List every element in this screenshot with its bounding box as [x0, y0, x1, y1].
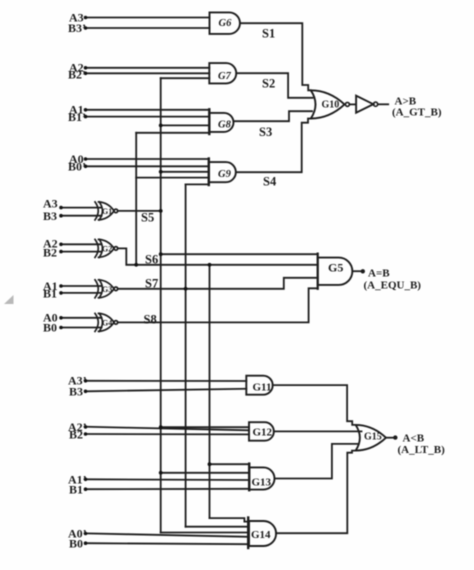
svg-text:S8: S8 — [144, 313, 157, 327]
node S6 lower junction — [208, 263, 212, 267]
svg-text:B2: B2 — [69, 428, 83, 442]
svg-text:G8: G8 — [218, 120, 232, 131]
xnor-gate G2 — [95, 239, 118, 257]
wire A0' input to G14 — [87, 533, 248, 536]
wire B0 input to G14 — [87, 543, 248, 544]
node A0 terminal — [84, 157, 88, 161]
wire A_LT_B output — [386, 437, 394, 439]
svg-text:B1’: B1’ — [68, 110, 86, 124]
node A3 terminal — [84, 16, 88, 20]
and-gate G13 — [249, 467, 274, 489]
wire B2 input to G12 — [87, 433, 249, 435]
and-gate G5 input bar — [317, 254, 319, 289]
wire S7 branch to G9 — [186, 183, 209, 185]
node S5-G5 junction — [159, 252, 163, 256]
svg-text:G3: G3 — [102, 285, 112, 294]
wire A3' input to G11 — [87, 380, 246, 382]
node S5-G12 junction — [159, 425, 163, 429]
node B0 lower terminal — [84, 541, 88, 545]
and-gate G9 input bar — [208, 159, 210, 186]
wire G6 output S1 to G10 — [240, 23, 311, 90]
wire S6 branch to G8 — [136, 132, 209, 134]
wire junction dots — [134, 124, 211, 475]
svg-text:G7: G7 — [218, 71, 232, 82]
wire S5 branch to G13 — [161, 472, 250, 474]
node S7 junction — [184, 287, 188, 291]
wire B2 input to G2 — [62, 251, 102, 253]
and-gate G6 — [210, 12, 240, 34]
wire G5 output A_EQU_B — [352, 270, 361, 272]
wire S5 branch to G5 — [161, 253, 318, 255]
wire B0 input to G4 — [62, 327, 102, 329]
wire A0 input to G4 — [62, 317, 102, 319]
wire A2' input to G12 — [87, 427, 249, 431]
node S5-G1 junction — [159, 209, 163, 213]
svg-text:S7: S7 — [145, 277, 158, 291]
svg-text:B1: B1 — [43, 287, 57, 301]
wire A1' input to G13 — [87, 478, 249, 481]
watermark triangle — [4, 295, 14, 304]
svg-text:B3: B3 — [69, 385, 83, 399]
svg-text:B1: B1 — [69, 483, 83, 497]
wire S7 branch to G14 — [186, 526, 249, 528]
wire S5 branch to G8 — [161, 124, 210, 126]
vertical net S6 upper — [135, 133, 137, 265]
input terminal dots — [59, 16, 87, 545]
svg-text:G15: G15 — [364, 431, 382, 442]
wire G1 output S5 — [118, 210, 161, 212]
node G5 output dot — [361, 269, 365, 273]
node S5-G9 junction — [159, 170, 163, 174]
and-gate G13 input bar — [248, 464, 250, 491]
wire B1 input to G13 — [87, 488, 249, 490]
and-gate G7 — [209, 63, 236, 83]
svg-text:(A_LT_B): (A_LT_B) — [398, 444, 446, 456]
wire B1' input to G8 — [87, 116, 209, 118]
wire A2 input to G2 — [62, 243, 102, 245]
wire S5 branch to G14 — [161, 532, 249, 534]
vertical net S7 — [185, 184, 187, 526]
node B2 xnor terminal — [59, 250, 63, 254]
svg-text:S1: S1 — [262, 27, 275, 41]
wire G4 output S8 run to G5 — [118, 288, 318, 322]
svg-text:G11: G11 — [253, 382, 272, 394]
wire A3 input to G1 — [62, 207, 102, 209]
svg-text:S6: S6 — [145, 253, 158, 267]
wire G14 output to G15 — [276, 451, 356, 534]
wire S5 branch to G9 — [161, 171, 209, 173]
node S5-G8 junction — [159, 124, 163, 128]
node A2 terminal — [84, 66, 88, 70]
svg-text:B3: B3 — [43, 209, 57, 223]
wire A1 input to G8 — [87, 109, 209, 111]
node A2 xnor terminal — [59, 243, 63, 247]
wire S5 branch to G7 — [161, 77, 210, 79]
wire B3' input to G6 — [87, 27, 210, 29]
svg-text:A<B: A<B — [403, 433, 425, 445]
svg-text:G1: G1 — [102, 207, 112, 216]
node B1 xnor terminal — [59, 291, 63, 295]
and-gate G14 — [249, 521, 276, 546]
svg-text:G6: G6 — [219, 18, 233, 29]
and-gate G8 — [209, 113, 233, 132]
wire A_GT_B output — [378, 103, 388, 105]
wire S6 branch to G9 — [136, 177, 209, 179]
node S6-G13 junction — [208, 462, 212, 466]
wire A3 input to G6 — [87, 17, 210, 19]
wire S6 branch to G14 — [210, 518, 249, 522]
svg-text:S3: S3 — [259, 125, 272, 139]
svg-text:G4: G4 — [102, 319, 112, 328]
wire G13 output to G15 — [275, 444, 359, 479]
wire B2' input to G7 — [87, 72, 209, 74]
svg-text:A=B: A=B — [368, 268, 390, 280]
svg-text:S4: S4 — [263, 175, 277, 189]
inverter output bubble — [374, 102, 378, 106]
and-gate G12 — [249, 422, 274, 441]
node B2 lower terminal — [84, 432, 88, 436]
svg-text:G13: G13 — [252, 477, 272, 489]
svg-text:B2: B2 — [43, 246, 57, 260]
svg-text:B2’: B2’ — [68, 68, 86, 82]
wire B0' input to G9 — [87, 165, 209, 167]
node B0 xnor terminal — [59, 326, 63, 330]
node B3 lower terminal — [84, 390, 88, 394]
and-gate G9 — [209, 162, 236, 182]
inverter after G10 — [356, 96, 373, 113]
node S5-G13 junction — [159, 471, 163, 475]
wire G8 output S3 to G10 — [234, 111, 313, 121]
and-gate G5 — [318, 258, 353, 285]
svg-text:B3’: B3’ — [68, 21, 86, 35]
svg-text:B0: B0 — [43, 321, 57, 335]
node G15 output dot — [393, 435, 397, 439]
node A1' terminal — [84, 478, 88, 482]
wire S6 branch to G13 — [210, 463, 250, 465]
svg-text:S5: S5 — [141, 211, 154, 225]
node A3' terminal — [84, 379, 88, 383]
wire G7 output S2 to G10 — [236, 73, 312, 98]
wire A1 input to G3 — [62, 285, 102, 287]
and-gate G11 — [246, 376, 272, 395]
node B3' terminal — [84, 26, 88, 30]
node A0' terminal — [84, 532, 88, 536]
wire A2 input to G7 — [87, 67, 209, 69]
and-gate G8 input bar — [208, 109, 210, 134]
svg-text:G12: G12 — [253, 427, 273, 439]
svg-text:(A_GT_B): (A_GT_B) — [392, 106, 442, 118]
node B3 xnor terminal — [59, 214, 63, 218]
svg-text:G14: G14 — [251, 529, 271, 541]
svg-text:G5: G5 — [328, 261, 343, 275]
node A2' terminal — [84, 425, 88, 429]
wire B1 input to G3 — [62, 292, 102, 294]
or-gate G15 — [356, 425, 386, 451]
svg-text:G9: G9 — [218, 169, 232, 180]
vertical net S5 — [160, 78, 162, 532]
wire G12 output to G15 — [274, 430, 362, 432]
node B2' terminal — [84, 72, 88, 76]
svg-text:(A_EQU_B): (A_EQU_B) — [364, 279, 422, 291]
wire G9 output S4 to G10 — [236, 119, 311, 173]
vertical net S6 lower — [209, 265, 211, 518]
node A0 xnor terminal — [59, 316, 63, 320]
svg-text:S2: S2 — [262, 77, 275, 91]
svg-text:G10: G10 — [322, 99, 340, 110]
node B1' terminal — [84, 115, 88, 119]
wire S5 branch to G12 — [161, 426, 249, 428]
node A3 xnor terminal — [59, 206, 63, 210]
nor-gate G10 — [311, 90, 345, 118]
wire A0 input to G9 — [87, 158, 209, 160]
and-gate G14 input bar — [247, 518, 249, 549]
svg-text:G2: G2 — [102, 245, 112, 254]
xnor-gate G3 — [95, 280, 118, 298]
wire B3 input to G1 — [62, 215, 102, 217]
xnor-gate G1 — [95, 202, 118, 220]
nor-gate G10 output bubble — [345, 102, 349, 106]
node A1 xnor terminal — [59, 284, 63, 288]
svg-text:B0: B0 — [69, 537, 83, 551]
wire G11 output to G15 — [273, 385, 356, 425]
node S6 upper junction — [134, 263, 138, 267]
wire G3 output S7 run to G5 — [118, 278, 318, 289]
xnor-gate G4 — [95, 313, 118, 331]
wire G2 output S6 run to G5 — [118, 248, 318, 264]
wire G10 to inverter — [350, 103, 357, 105]
node B0' terminal — [84, 165, 88, 169]
svg-text:B0’: B0’ — [68, 160, 86, 174]
node B1 lower terminal — [84, 487, 88, 491]
wire B3 input to G11 — [87, 389, 246, 392]
node A1 terminal — [84, 108, 88, 112]
